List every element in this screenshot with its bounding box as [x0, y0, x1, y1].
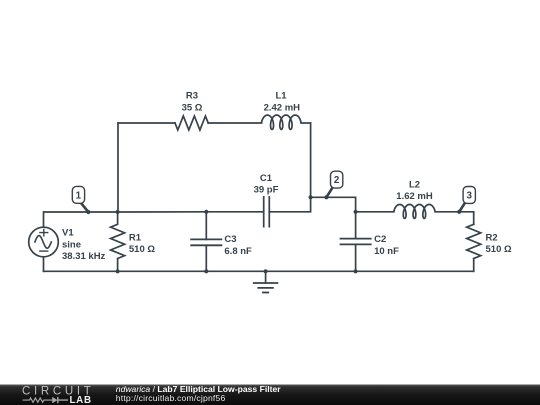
- wire V1 top lead: [44, 212, 118, 227]
- junction C3 bottom: [204, 269, 208, 273]
- svg-text:C3: C3: [224, 234, 236, 245]
- svg-text:L2: L2: [409, 179, 420, 190]
- junction node1 pointer dot: [86, 210, 90, 214]
- V1 sine wave: [35, 236, 51, 249]
- svg-text:http://circuitlab.com/cjpnf56: http://circuitlab.com/cjpnf56: [116, 393, 226, 403]
- inductor L1: [262, 115, 301, 129]
- wire top-left vertical: [117, 123, 119, 212]
- junction node3 pointer dot: [457, 210, 461, 214]
- svg-text:10 nF: 10 nF: [374, 246, 399, 257]
- svg-text:3: 3: [466, 190, 472, 201]
- svg-text:1: 1: [76, 190, 82, 201]
- ground stem: [265, 271, 267, 283]
- wire node2 horizontal: [311, 197, 356, 212]
- svg-text:6.8 nF: 6.8 nF: [224, 246, 252, 257]
- wire top horizontal left segment: [118, 122, 175, 124]
- resistor R2: [467, 224, 481, 258]
- svg-text:39 pF: 39 pF: [254, 184, 279, 195]
- node flag 3: [459, 187, 475, 212]
- ground bar 3: [263, 292, 268, 294]
- svg-text:2: 2: [334, 175, 340, 186]
- source V1 circle: [29, 227, 59, 257]
- node flag 1: [72, 186, 88, 212]
- wire between R3 and L1: [208, 122, 261, 124]
- junction C2 bottom: [354, 269, 358, 273]
- wire V1 bottom lead: [43, 257, 45, 272]
- resistor R1: [111, 212, 125, 271]
- logo squiggle wire: [23, 398, 53, 402]
- wire top-right vertical down to node2: [310, 123, 312, 197]
- capacitor C3 plates: [191, 239, 221, 245]
- svg-text:sine: sine: [62, 239, 81, 250]
- wire node2 to L2: [356, 211, 394, 213]
- junction R1 bottom: [116, 269, 120, 273]
- junction node2 riser: [309, 195, 313, 199]
- resistor R3: [175, 116, 208, 130]
- ground bar 1: [254, 282, 278, 284]
- capacitor C1 plates: [264, 197, 270, 227]
- capacitor C2 leads: [355, 212, 357, 271]
- wire bottom rail: [44, 270, 474, 272]
- svg-text:R2: R2: [486, 232, 498, 243]
- junction C3 top: [204, 210, 208, 214]
- wire R2 bottom lead: [473, 259, 475, 272]
- V1 minus sign: [40, 250, 48, 252]
- junction C2 top: [354, 210, 358, 214]
- svg-text:R1: R1: [129, 232, 142, 243]
- svg-text:510 Ω: 510 Ω: [129, 244, 155, 255]
- junction node2 pointer dot: [324, 195, 328, 199]
- ground bar 2: [258, 287, 273, 289]
- junction R1 top: [116, 210, 120, 214]
- capacitor C3 leads: [205, 212, 207, 271]
- footer bar: [0, 384, 540, 405]
- svg-text:V1: V1: [62, 227, 74, 238]
- wire C3 to C1 left plate: [206, 211, 263, 213]
- wire L2 to R2 corner: [435, 212, 474, 225]
- wire after L1 to corner: [301, 122, 311, 124]
- svg-text:2.42 mH: 2.42 mH: [264, 102, 301, 113]
- svg-text:LAB: LAB: [70, 395, 92, 405]
- node flag 2: [326, 171, 342, 197]
- svg-text:510 Ω: 510 Ω: [486, 244, 512, 255]
- junction ground: [264, 269, 268, 273]
- logo diode: [52, 397, 57, 403]
- svg-text:35 Ω: 35 Ω: [182, 102, 203, 113]
- svg-text:C1: C1: [260, 173, 273, 184]
- wire main from R1 to C3: [118, 211, 207, 213]
- inductor L2: [394, 205, 435, 219]
- wire C1 right to node2 riser: [269, 197, 310, 212]
- svg-text:L1: L1: [275, 91, 287, 102]
- svg-text:R3: R3: [186, 91, 198, 102]
- svg-text:1.62 mH: 1.62 mH: [396, 191, 433, 202]
- svg-text:C2: C2: [374, 234, 386, 245]
- V1 plus sign: [40, 229, 48, 235]
- capacitor C2 plates: [341, 239, 371, 245]
- svg-text:38.31 kHz: 38.31 kHz: [62, 251, 106, 262]
